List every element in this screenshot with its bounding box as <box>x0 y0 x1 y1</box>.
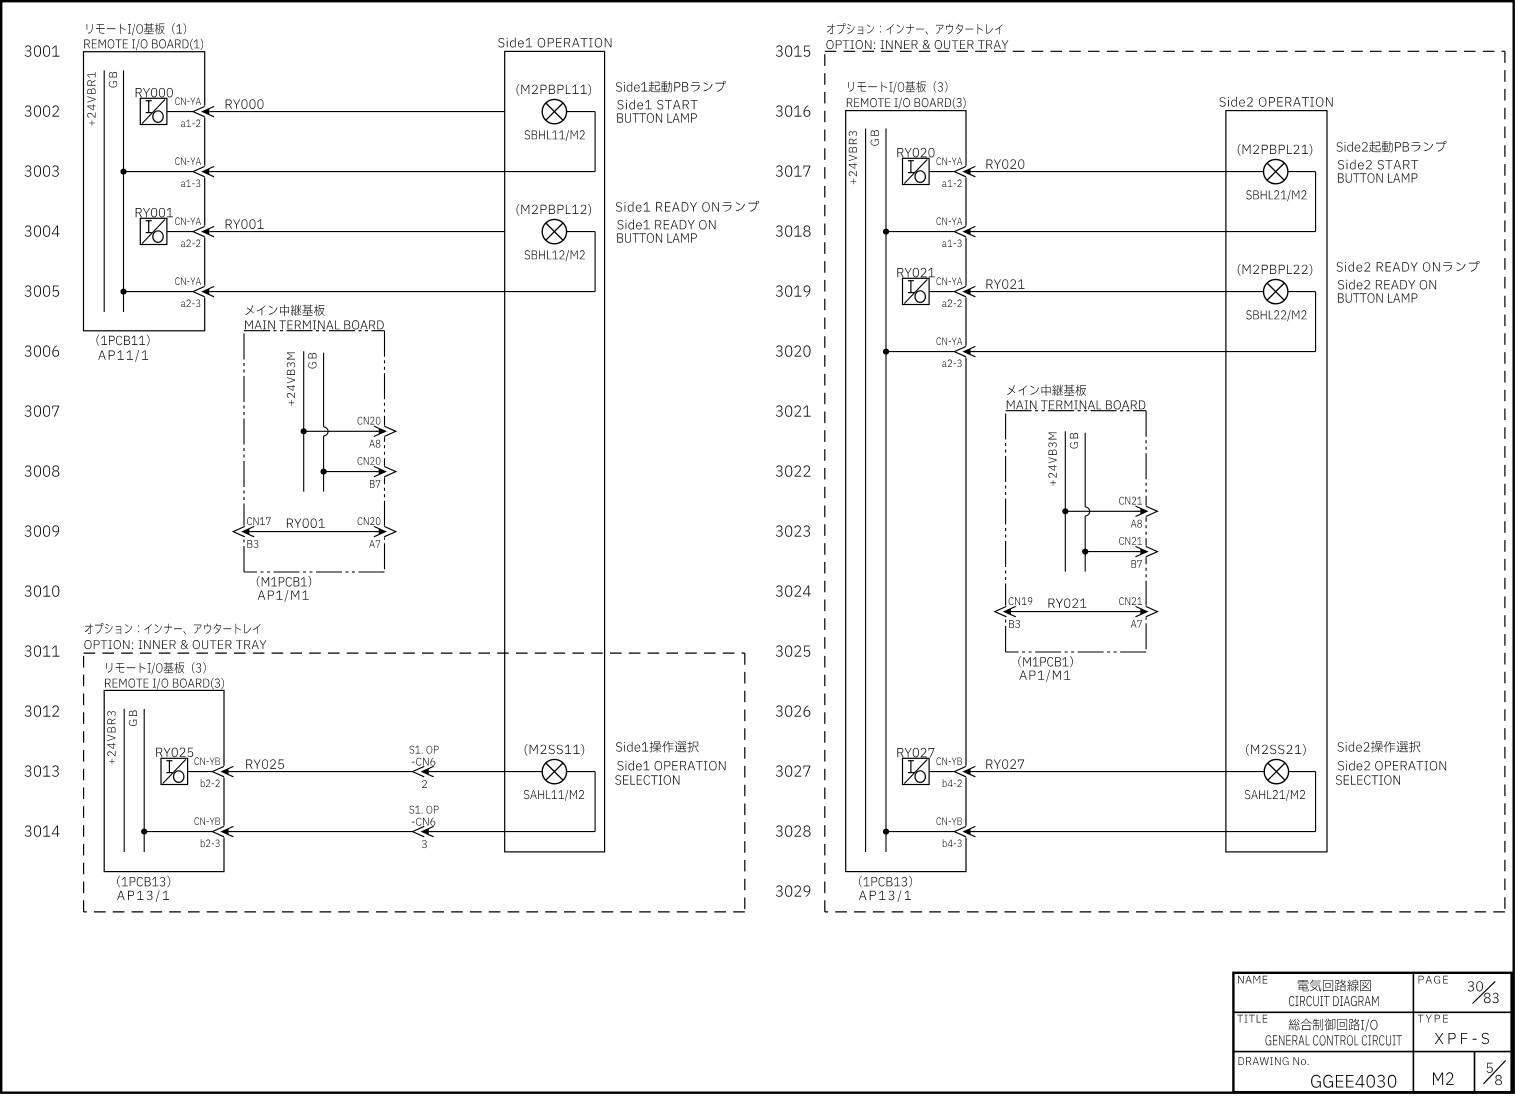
lamp M2SS21 SAHL21/M2 <box>1245 744 1306 801</box>
junction node row 3020 on GB right <box>883 349 889 355</box>
power rail GB (M1 board) <box>308 353 328 492</box>
pin CN-YA a1-2 <box>175 97 201 127</box>
wire CN21-B7 <box>1085 551 1139 553</box>
connector CN21 B7 <box>1119 537 1157 568</box>
connector chevron b2-3 <box>212 826 233 838</box>
title block DRAWING No. GGEE4030 <box>1239 1057 1397 1088</box>
net label RY027 <box>986 759 1024 769</box>
wire CN20-B7 <box>324 471 378 473</box>
power rail GB (board 3 right) <box>871 129 886 853</box>
panel Side1 OPERATION <box>498 38 611 852</box>
net label RY020 <box>987 159 1025 169</box>
wire CN21-A8 with hop over GB <box>1065 510 1139 512</box>
pin CN-YA a2-3 (right) <box>937 337 963 367</box>
wire RY020 row 3017 <box>929 171 1263 173</box>
lamp M2PBPL22 SBHL22/M2 <box>1238 264 1313 321</box>
refdes 1PCB13 AP13/1 (right) <box>859 876 912 902</box>
net label RY021 (M1 right) <box>1049 599 1087 609</box>
pin CN-YA a1-3 <box>175 157 201 187</box>
title block M2 <box>1433 1072 1454 1085</box>
wire RY025 row 3013 <box>188 771 543 773</box>
pin CN-YB b4-2 <box>937 757 962 787</box>
title block sheet 5/8 <box>1484 1061 1506 1086</box>
junction node GB / CN21-B7 <box>1082 549 1088 555</box>
wire lamp21 return row 3018 <box>886 172 1316 232</box>
net label RY025 <box>246 759 284 769</box>
junction node row 3003 on GB <box>120 169 126 175</box>
lamp M2SS11 SAHL11/M2 <box>524 744 584 801</box>
pin CN-YA a2-2 <box>175 217 201 247</box>
wire lamp2 feed inside panel <box>567 231 596 233</box>
connector CN20 A7 <box>358 517 396 548</box>
junction node +24VB3M / CN21-A8 <box>1062 508 1068 514</box>
junction node GB / CN20-B7 <box>321 469 327 475</box>
refdes 1PCB13 AP13/1 (left) <box>117 876 170 902</box>
option region label (left) <box>84 623 266 649</box>
connector chevron a2-2 right <box>954 286 975 298</box>
title block TITLE: GENERAL CONTROL CIRCUIT <box>1237 1015 1402 1046</box>
label Side1 START BUTTON LAMP <box>616 81 726 123</box>
net label RY001 <box>226 219 264 229</box>
label Side2 OPERATION SELECTION <box>1336 741 1446 785</box>
power rail +24VB3M <box>287 351 304 491</box>
connector chevron a2-3 right <box>954 346 975 358</box>
pin CN-YB b4-3 <box>937 817 962 847</box>
connector S1.OP-CN6 pin2 <box>409 746 438 788</box>
pin CN-YB b2-3 <box>195 817 220 847</box>
board outline REMOTE I/O BOARD(3) right <box>846 111 966 872</box>
connector chevron a2-2 <box>193 226 214 238</box>
connector CN20 A8 <box>358 417 396 448</box>
title block TYPE XPF-S <box>1418 1015 1489 1044</box>
pin CN-YA a2-3 <box>175 277 201 307</box>
option region label (right) <box>826 23 1008 49</box>
connector S1.OP-CN6 pin3 <box>409 806 438 848</box>
relay output RY001 <box>136 208 173 245</box>
connector CN21 A7 <box>1119 597 1157 628</box>
relay output RY021 <box>897 268 934 305</box>
label Side1 OPERATION SELECTION <box>615 741 725 785</box>
line number column 3015-3029 <box>776 45 811 896</box>
power rail +24VB3M (right) <box>1048 431 1065 571</box>
option dashed outline (right) <box>825 51 1505 912</box>
connector CN19 B3 <box>995 597 1032 628</box>
net label RY021 <box>987 279 1025 289</box>
connector chevron a1-2 <box>193 106 214 118</box>
wire lamp21 feed <box>1288 171 1316 173</box>
board outline REMOTE I/O BOARD(3) 1PCB13 (left) <box>104 690 224 871</box>
wire lamp22 return row 3020 <box>886 292 1316 352</box>
board outline MAIN TERMINAL BOARD M1PCB1 (chain line) <box>244 331 385 572</box>
board label REMOTE I/O BOARD(3) (right) <box>847 81 966 109</box>
connector chevron a1-2 right <box>954 166 975 178</box>
wire RY021 CN19-CN21 <box>1005 611 1140 613</box>
wire RY000 row 3002 <box>167 111 505 113</box>
connector chevron b2-2 <box>212 766 233 778</box>
pin CN-YA a1-3 (right) <box>937 217 963 247</box>
power rail GB (board 1) <box>109 70 124 312</box>
connector CN17 B3 <box>233 517 270 548</box>
net label RY000 <box>226 99 264 109</box>
option dashed outline (left) <box>84 653 745 912</box>
junction node row 3018 on GB right <box>883 229 889 235</box>
refdes M1PCB1 AP1/M1 <box>257 576 311 602</box>
title block frame <box>1233 973 1511 1093</box>
wire RY027 row 3027 <box>929 771 1264 773</box>
refdes M1PCB1 AP1/M1 (right) <box>1018 656 1072 682</box>
panel Side2 OPERATION <box>1220 97 1333 852</box>
power rail +24VBR3 (right) <box>849 129 866 853</box>
connector CN21 A8 <box>1119 497 1157 528</box>
pin CN-YA a1-2 (RY020) <box>937 157 963 187</box>
connector chevron a1-3 <box>193 166 214 178</box>
lamp M2PBPL12 SBHL12/M2 <box>517 204 592 261</box>
pin CN-YA a2-2 (right) <box>937 277 963 307</box>
lamp M2PBPL21 SBHL21/M2 <box>1238 144 1313 201</box>
junction node +24VB3M / CN20-A8 <box>301 428 307 434</box>
connector chevron a2-3 <box>193 286 214 298</box>
wire lamp2 return row 3005 <box>124 232 596 292</box>
power rail +24VBR3 (left) <box>107 709 124 852</box>
pin CN-YB b2-2 <box>195 757 220 787</box>
connector chevron b4-2 <box>954 766 975 778</box>
label Side2 READY ON BUTTON LAMP <box>1337 261 1480 303</box>
wire lamp3 return row 3014 <box>144 772 595 832</box>
wire lamp23 feed <box>1289 771 1316 773</box>
line number column 3001-3014 <box>25 45 60 836</box>
wire lamp1 return row 3003 <box>124 112 596 172</box>
board outline MAIN TERMINAL BOARD right (chain line) <box>1006 411 1147 652</box>
title block PAGE 30/83 <box>1419 976 1499 1004</box>
wire lamp3 feed inside panel <box>567 771 596 773</box>
board label MAIN TERMINAL BOARD (M1) <box>245 305 384 330</box>
connector chevron a1-3 right <box>954 226 975 238</box>
relay output RY027 <box>897 748 934 785</box>
board label REMOTE I/O BOARD(3) (left) <box>105 662 224 689</box>
power rail +24VBR1 <box>87 70 104 312</box>
wire CN20-A8 with hop over GB <box>304 430 378 432</box>
board label MAIN TERMINAL BOARD (M1 right) <box>1007 385 1146 410</box>
net label RY001 (M1 board) <box>287 519 325 529</box>
power rail GB (board 3 left) <box>129 709 144 852</box>
junction node row 3028 on GB right <box>883 829 889 835</box>
lamp M2PBPL11 SBHL11/M2 <box>517 84 592 141</box>
board label REMOTE I/O BOARD(1) <box>84 23 203 50</box>
wire RY021 row 3019 <box>929 291 1263 293</box>
title block NAME: CIRCUIT DIAGRAM <box>1238 976 1378 1006</box>
wire lamp23 return row 3028 <box>886 772 1316 832</box>
refdes 1PCB11 AP11/1 <box>96 335 149 362</box>
junction node row 3005 on GB <box>120 289 126 295</box>
connector chevron b4-3 <box>954 826 975 838</box>
wire lamp22 feed <box>1288 291 1316 293</box>
label Side2 START BUTTON LAMP <box>1337 141 1447 183</box>
wire lamp1 feed inside panel <box>567 111 596 113</box>
relay output RY025 <box>156 748 193 785</box>
relay output RY020 <box>897 148 934 185</box>
power rail GB (M1 right) <box>1070 433 1090 572</box>
board outline REMOTE I/O BOARD(1) 1PCB11 <box>84 52 205 331</box>
wire RY001 row 3004 <box>167 231 505 233</box>
junction node row 3014 on GB (left board3) <box>141 829 147 835</box>
relay output RY000 <box>136 88 173 125</box>
label Side1 READY ON BUTTON LAMP <box>616 201 759 243</box>
connector CN20 B7 <box>358 457 396 488</box>
wire RY001 CN17-CN20 <box>243 531 378 533</box>
